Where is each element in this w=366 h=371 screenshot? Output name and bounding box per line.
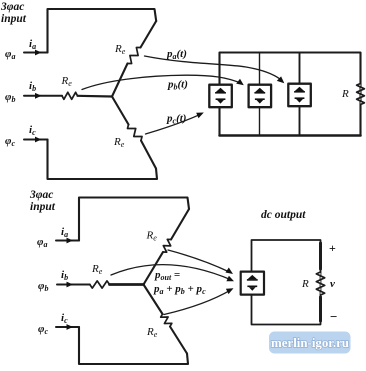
wire phase a up and top [48,9,157,53]
wire phase c down and bottom [48,140,158,180]
resistor Re phase a (bottom circuit) [163,239,171,252]
svg-text:dc output: dc output [261,209,306,221]
svg-text:pout =: pout = [154,269,180,282]
svg-text:φc: φc [5,135,15,148]
wire phase a up and top (bottom circuit) [79,198,189,241]
svg-text:ic: ic [61,312,68,325]
svg-text:ia: ia [29,38,36,51]
svg-text:R: R [341,88,349,100]
svg-text:merlin-igor.ru: merlin-igor.ru [271,336,349,350]
svg-text:Re: Re [146,326,158,339]
resistor R (top right load) [357,84,365,105]
svg-text:φb: φb [38,280,48,293]
svg-text:pa(t): pa(t) [166,48,187,61]
wire phase c [24,139,48,141]
svg-text:Re: Re [91,263,103,276]
thick wire right edge upper [319,243,322,269]
wire diagonal to Re (bottom circuit, phase c) [170,327,187,354]
svg-text:ib: ib [29,80,36,93]
svg-text:ic: ic [29,124,36,137]
wire Re c to neutral node (bottom circuit) [144,285,163,315]
svg-text:ib: ib [61,269,68,282]
power sink box 3 [288,84,311,107]
arrow current i_a [35,50,42,56]
wire Re to neutral node (bottom circuit) [144,252,164,285]
svg-text:R: R [301,278,309,290]
arrow current i_b [35,93,42,99]
power source box (dc) [241,272,264,295]
svg-text:3φac: 3φac [0,1,24,13]
svg-text:φb: φb [5,91,15,104]
power sink box 2 [249,85,272,108]
resistor Re phase c (bottom diagonal) [128,125,143,141]
arrow current i_a (bottom) [67,238,74,244]
wire Re b to neutral node [78,95,113,98]
svg-text:pa + pb + pc: pa + pb + pc [153,283,206,296]
power flow arrow p_b(t) [82,75,242,89]
wire diagonal to Re (bottom circuit, phase a) [171,209,189,240]
svg-text:input: input [1,13,27,25]
svg-text:ia: ia [61,226,68,239]
svg-text:φa: φa [37,236,47,249]
arrow current i_c [35,137,42,143]
svg-text:+: + [329,241,336,255]
power flow arrow p_a (bottom) [168,250,231,273]
watermark merlin-igor.ru [269,332,351,354]
wire Re to neutral node [112,64,128,97]
wire phase a (bottom) [56,240,79,242]
svg-text:Re: Re [114,43,126,56]
wire phase c (bottom) [56,326,79,328]
svg-text:Re: Re [61,75,73,88]
wire diagonal to Re (phase a) [141,21,157,48]
branch wire 2 [259,53,261,136]
branch wire 3 [299,53,301,136]
svg-text:3φac: 3φac [29,189,53,201]
wire phase a [24,52,48,54]
svg-text:pc(t): pc(t) [166,113,186,126]
wire phase b [24,95,62,97]
svg-text:v: v [330,278,335,290]
power flow arrow p_c (bottom) [164,290,231,315]
arrow current i_b (bottom) [67,282,74,288]
wire diagonal to Re (phase c) [141,141,156,169]
wire Re c to neutral node [112,97,129,125]
arrow current i_c (bottom) [67,324,74,330]
wire phase c down and bottom (bottom circuit) [79,327,188,364]
wire phase b (bottom) [57,284,90,286]
power sink box 1 [209,85,232,108]
power flow arrow p_a(t) [145,56,283,81]
wire bottom bus (thick) [220,134,361,137]
svg-text:φc: φc [38,323,48,336]
power flow arrow p_b (bottom) [111,265,232,280]
svg-text:input: input [30,201,56,213]
resistor Re phase a (top diagonal) [128,48,141,64]
svg-text:φa: φa [5,48,15,61]
svg-text:−: − [330,309,337,324]
dc output loop rectangle [252,240,321,325]
resistor Re phase b (bottom circuit horizontal) [90,281,110,288]
svg-text:pb(t): pb(t) [167,79,188,92]
wire Re b to neutral node (bottom circuit) [110,283,144,286]
thick wire right edge lower [319,297,322,321]
power flow arrow p_c(t) [146,114,202,134]
resistor R (dc load) [316,272,324,295]
dc bus rectangle (top right) [220,53,361,136]
svg-text:Re: Re [146,230,158,243]
resistor Re phase b (horizontal) [62,92,78,99]
svg-text:Re: Re [113,136,125,149]
resistor Re phase c (bottom circuit) [161,314,172,327]
